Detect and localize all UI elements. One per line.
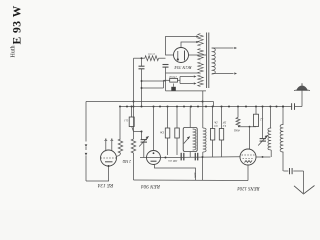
tube V2 grid dot — [153, 152, 155, 154]
svg-text:Huth: Huth — [11, 46, 17, 58]
capacitor C8 trimmer plates — [260, 138, 266, 140]
svg-text:RE 134: RE 134 — [97, 182, 114, 189]
capacitor C9 series in bus — [292, 105, 294, 108]
rectifier anode electrode — [184, 51, 186, 61]
wire left branch from bus — [85, 102, 87, 135]
mechanical link dashed with arrows — [85, 134, 87, 142]
resistor R6 box — [167, 107, 169, 129]
capacitor C6 plates — [180, 153, 182, 161]
wire V1 anode top lead — [111, 141, 113, 151]
wire rectifier anode lead — [189, 54, 207, 56]
wire mains lead upper — [212, 47, 233, 49]
wire R3 bottom hook — [117, 153, 121, 156]
resistor R2 smoothing — [145, 56, 159, 61]
tube V3 grid dashes — [242, 154, 255, 156]
wire C3 top lead — [141, 58, 143, 66]
svg-text:225: 225 — [193, 172, 197, 177]
svg-text:RGN 354: RGN 354 — [174, 65, 193, 70]
wire C4 bottom lead — [143, 142, 145, 157]
wire V2 anode lead — [153, 107, 155, 151]
capacitor C7 plates — [194, 153, 196, 161]
tube V1 cathode bar — [105, 161, 113, 163]
wire V3 side lead — [262, 156, 264, 158]
rectifier tube U1 RGN 354 envelope — [174, 48, 189, 63]
svg-text:1,2: 1,2 — [259, 118, 263, 121]
svg-text:E 93 W: E 93 W — [12, 5, 24, 44]
wire R4 to dropper — [134, 131, 142, 133]
junction dots on lower bus — [119, 106, 121, 108]
wire L3 bottom to earth branch — [282, 152, 284, 171]
power transformer T1 winding 1 — [198, 34, 204, 47]
resistor R8 box — [212, 107, 214, 129]
wire T2 top lead — [189, 107, 191, 128]
resistor R3 grid leak — [119, 107, 121, 140]
svg-text:RENS 1204: RENS 1204 — [237, 185, 261, 190]
wire cathode return — [86, 180, 109, 182]
capacitor C8 arrow — [258, 135, 267, 145]
wire C4 top lead — [141, 132, 143, 140]
capacitor C1 on box left edge — [163, 64, 169, 66]
wire rectifier filament loop (box outline) — [166, 37, 197, 56]
wire V2 cathode lead — [155, 164, 196, 180]
tube V3 RENS 1204 envelope — [240, 149, 256, 165]
svg-text:DF: DF — [222, 121, 227, 124]
svg-text:20 000: 20 000 — [147, 52, 155, 54]
earth symbol — [303, 171, 305, 193]
wire rectifier filament inner lead — [181, 42, 197, 48]
junction dot antenna branch — [282, 106, 284, 108]
wire join to V3 — [238, 126, 256, 128]
wire R2 right lead — [159, 57, 166, 59]
rectifier filament electrode — [177, 51, 179, 60]
capacitor C4 arrow — [139, 136, 148, 146]
wire box bottom edge — [165, 67, 167, 91]
tube V2 cathode bar — [151, 160, 157, 162]
svg-text:REN 904: REN 904 — [141, 183, 161, 190]
svg-text:40kΩ: 40kΩ — [234, 129, 240, 132]
inductor L2 coil — [269, 107, 271, 129]
wire transformer bottom lead — [166, 90, 207, 92]
tube V1 RE 134 envelope — [101, 150, 117, 166]
wire C8 top lead — [262, 107, 264, 139]
resistor R9 box — [221, 107, 223, 129]
power transformer T1 winding 4 — [198, 75, 204, 87]
tube V2 REN 904 envelope — [147, 151, 161, 165]
transformer T2 secondary coil — [193, 129, 196, 150]
wire C3 bottom lead — [141, 69, 143, 107]
wire R2 left lead — [134, 57, 145, 59]
wire antenna riser — [301, 89, 303, 107]
resistor R7 box — [176, 107, 178, 129]
wire V1 cathode lead — [108, 166, 110, 181]
antenna symbol — [296, 85, 308, 90]
capacitor C10 series — [283, 170, 288, 172]
choke L1 coil — [202, 91, 204, 128]
transformer T2 box — [183, 128, 197, 152]
wire mains lead lower — [212, 73, 233, 75]
wire grid line to V2 — [140, 157, 147, 159]
wire anode line — [147, 157, 167, 159]
wire tap from C3 node — [142, 80, 167, 82]
tube V3 cathode zigzag — [245, 161, 253, 163]
resistor R1 150ohm box — [164, 79, 170, 81]
tube V3 screen dashes — [243, 157, 254, 159]
resistor R11 box — [255, 107, 257, 115]
capacitor C3 — [139, 65, 145, 67]
svg-text:100 cm: 100 cm — [168, 159, 178, 163]
resistor R4 box — [131, 107, 133, 118]
power transformer T1 winding 3 — [198, 62, 204, 74]
wire L2 bottom — [263, 156, 271, 158]
wire bus lower — [120, 106, 302, 108]
svg-text:Dk: Dk — [160, 131, 165, 135]
transformer T2 arrow — [184, 137, 190, 144]
tube V1 grid dashes — [101, 157, 118, 159]
power transformer T1 core — [206, 33, 208, 89]
resistor R5 in dropper path — [131, 139, 136, 153]
resistor R10 zigzag — [237, 107, 239, 118]
power transformer T1 winding 2 — [198, 49, 204, 61]
wire T2 bottom lead — [189, 152, 191, 158]
wire V1 grid top lead — [105, 141, 107, 152]
wire heater arrow upper — [179, 77, 181, 84]
power transformer T1 secondary coil — [212, 48, 216, 74]
title Huth E 93 W (rotated) — [11, 5, 24, 57]
inductor L3 coil — [282, 107, 284, 125]
wire cap feed — [142, 87, 164, 89]
wire bus corner joint — [213, 102, 215, 107]
wire cathode bus lower — [134, 179, 249, 182]
wire V3 cathode lead — [247, 165, 249, 181]
wire drop to cathode bus — [202, 157, 204, 181]
wire bus upper — [86, 101, 214, 103]
wire heater arrow lower — [180, 83, 194, 85]
capacitor C4 trimmer plates — [141, 139, 147, 141]
capacitor C2 block — [173, 84, 175, 87]
svg-text:2 MΩ: 2 MΩ — [122, 159, 131, 163]
wire long dropper — [133, 58, 135, 131]
